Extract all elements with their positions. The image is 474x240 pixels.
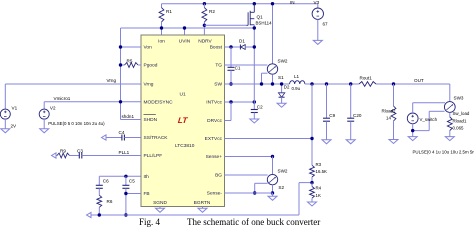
- svg-text:R3: R3: [316, 162, 322, 167]
- U1 top pin labels Ion UVIN NDRV: [158, 39, 212, 45]
- svg-text:16.5K: 16.5K: [316, 169, 328, 174]
- wire Sense+ pin: [225, 156, 273, 158]
- wire input top rail IN: [162, 3, 318, 5]
- capacitor C4 (series): [121, 135, 123, 141]
- svg-text:Vrng: Vrng: [107, 78, 117, 83]
- svg-text:C5: C5: [129, 178, 135, 183]
- svg-text:INTVcc: INTVcc: [206, 100, 222, 106]
- svg-text:shdn1: shdn1: [122, 114, 135, 119]
- wire bottom feedback rail: [91, 214, 299, 216]
- U1 bottom pin labels SGND BGRTN: [153, 200, 211, 206]
- switch SW3 Sw_load: [449, 84, 451, 101]
- svg-text:V1: V1: [12, 105, 18, 110]
- svg-text:1K: 1K: [316, 193, 321, 198]
- ground under V1: [1, 129, 10, 133]
- svg-text:R9: R9: [60, 148, 66, 153]
- svg-text:NDRV: NDRV: [198, 39, 212, 45]
- svg-text:C6: C6: [103, 178, 109, 183]
- svg-text:OUT: OUT: [414, 78, 424, 83]
- op-amp U1 LTC3810 controller IC body: [141, 35, 225, 207]
- svg-text:The schematic of one buck conv: The schematic of one buck converter: [187, 217, 320, 227]
- resistor R3 16.5K: [311, 164, 313, 166]
- wire Boost pin: [225, 46, 241, 48]
- wire Ith: [99, 175, 141, 177]
- ground under C2: [250, 119, 259, 123]
- wire UVIN stub: [184, 28, 186, 35]
- svg-text:Pgood: Pgood: [144, 63, 158, 69]
- svg-text:SW2: SW2: [278, 58, 288, 63]
- wire BG pin to S2 control: [225, 174, 268, 176]
- switch S1 model SW2 (top switch): [272, 4, 274, 64]
- svg-text:Q1: Q1: [257, 14, 264, 19]
- svg-text:S2: S2: [278, 185, 284, 190]
- svg-text:FB: FB: [144, 191, 150, 197]
- wire INTVcc: [225, 101, 255, 103]
- port flag on SS/TRACK wire: [102, 135, 107, 140]
- voltage source V2: [43, 102, 45, 110]
- ground under V_switch: [408, 137, 417, 141]
- port flag on bottom feedback wire: [87, 212, 92, 217]
- resistor R5: [121, 64, 125, 66]
- wire FB: [126, 193, 141, 195]
- svg-text:BSH114: BSH114: [256, 20, 273, 25]
- svg-text:14: 14: [386, 116, 391, 121]
- svg-text:PULSE(0 4 1u 10u 10u 2.5m 5m: PULSE(0 4 1u 10u 10u 2.5m 5m: [413, 149, 474, 154]
- svg-text:BGRTN: BGRTN: [194, 200, 211, 206]
- svg-text:2V: 2V: [11, 124, 18, 129]
- svg-text:S1: S1: [278, 75, 284, 80]
- wire SW pin to L1: [225, 83, 290, 85]
- svg-text:C1: C1: [235, 65, 241, 70]
- svg-text:D1: D1: [239, 39, 245, 44]
- wire gate drive to Q1: [204, 24, 246, 26]
- svg-text:PULSE(0 5 0 10n 10n 2u 4u): PULSE(0 5 0 10n 10n 2u 4u): [48, 121, 105, 126]
- voltage source V1: [4, 84, 6, 109]
- svg-text:Sense+: Sense+: [206, 154, 223, 160]
- svg-text:C20: C20: [353, 113, 362, 118]
- resistor Rload1 0.065: [447, 117, 452, 131]
- diode D2 catch diode at SW: [281, 84, 283, 92]
- wire left vertical bus x=120.5: [120, 28, 122, 120]
- svg-text:Rload2: Rload2: [382, 108, 396, 113]
- svg-text:Vrng: Vrng: [144, 82, 154, 88]
- transistor Q1 BSH114: [253, 2, 256, 5]
- resistor R6: [98, 188, 100, 195]
- svg-text:R2: R2: [209, 9, 215, 14]
- svg-text:D2: D2: [284, 85, 290, 90]
- wire shdn1 branch to SHDN pin: [121, 119, 142, 121]
- svg-text:0.065: 0.065: [453, 126, 465, 131]
- capacitor C20: [349, 82, 352, 85]
- svg-text:R1: R1: [166, 9, 172, 14]
- capacitor C5: [125, 176, 127, 185]
- svg-text:Ion: Ion: [158, 39, 165, 45]
- svg-text:SHDN: SHDN: [144, 117, 158, 123]
- svg-text:BG: BG: [215, 173, 222, 179]
- capacitor C1 bootstrap: [230, 47, 232, 67]
- svg-text:SW2: SW2: [278, 169, 288, 174]
- capacitor C2: [253, 102, 255, 110]
- svg-text:IN: IN: [290, 0, 295, 5]
- wire S2 control- to Sense- node: [255, 182, 268, 184]
- wire V_switch control to SW3: [413, 102, 445, 104]
- resistor R2: [203, 2, 206, 5]
- wire Q1 source column down to INTVcc: [253, 47, 255, 102]
- U1 left pin labels: [144, 45, 174, 198]
- node Vmicro1 wire MODE/SYNC from V2: [44, 101, 141, 103]
- node PLL1 wire to pin: [82, 155, 141, 157]
- svg-text:V_switch: V_switch: [420, 117, 438, 122]
- wire feedback riser to divider tap: [298, 183, 300, 215]
- ground under V3: [313, 40, 322, 44]
- svg-text:C9: C9: [329, 113, 335, 118]
- ground under BGRTN pin: [202, 207, 204, 209]
- wire SW3 control- return: [429, 110, 444, 112]
- wire TG pin to S1 control: [225, 64, 268, 66]
- wire Sense- pin: [225, 192, 273, 194]
- wire EXTVcc column from OUT: [310, 82, 313, 85]
- svg-text:67: 67: [323, 22, 329, 27]
- ground under R4: [308, 202, 317, 206]
- svg-text:Rout1: Rout1: [360, 75, 373, 80]
- svg-text:Fig. 4: Fig. 4: [139, 217, 161, 227]
- svg-text:C2: C2: [257, 104, 263, 109]
- svg-text:TG: TG: [215, 63, 222, 69]
- switch S2 model SW2 (bottom switch): [272, 157, 274, 175]
- capacitor C9: [325, 82, 328, 85]
- resistor R1: [161, 4, 163, 8]
- svg-text:UVIN: UVIN: [179, 39, 191, 45]
- svg-text:R4: R4: [316, 186, 322, 191]
- svg-text:Vmicro1: Vmicro1: [54, 96, 71, 101]
- svg-text:SS/TRACK: SS/TRACK: [144, 135, 169, 141]
- port flag PLL1 wire: [52, 153, 57, 158]
- svg-text:L1: L1: [294, 74, 300, 79]
- svg-text:R5: R5: [127, 58, 133, 63]
- svg-text:SW: SW: [214, 82, 222, 88]
- svg-text:C3: C3: [77, 148, 83, 153]
- svg-text:R6: R6: [107, 199, 113, 204]
- svg-text:Boost: Boost: [210, 45, 223, 51]
- svg-text:MODE/SYNC: MODE/SYNC: [144, 100, 174, 106]
- wire DRVcc joins INTVcc: [225, 120, 232, 122]
- wire S1 control- to SW node: [262, 72, 268, 74]
- resistor R9: [56, 155, 57, 157]
- diode D1 bootstrap: [239, 45, 241, 50]
- svg-text:PLL/LPF: PLL/LPF: [144, 153, 163, 159]
- caption text: [139, 217, 320, 227]
- capacitor C3 (series): [78, 153, 80, 159]
- svg-text:Sw_load: Sw_load: [453, 111, 470, 116]
- ground at Sense-: [272, 193, 274, 196]
- ground under Rload1: [445, 137, 454, 141]
- svg-text:DRVcc: DRVcc: [207, 118, 222, 124]
- svg-text:0.9u: 0.9u: [292, 86, 301, 91]
- voltage source V_switch: [407, 113, 418, 124]
- svg-text:V3: V3: [314, 0, 320, 5]
- ground under V2: [40, 129, 49, 133]
- inductor L1: [290, 81, 305, 84]
- ground under C20: [346, 140, 355, 144]
- resistor R4 1K: [311, 183, 313, 187]
- svg-text:SW3: SW3: [454, 96, 464, 101]
- svg-text:C4: C4: [119, 130, 125, 135]
- svg-text:SGND: SGND: [153, 200, 167, 206]
- svg-text:Sense-: Sense-: [207, 191, 223, 197]
- resistor Rout1 (series): [359, 82, 376, 87]
- svg-text:LTC3810: LTC3810: [175, 143, 195, 149]
- svg-text:V2: V2: [50, 105, 56, 110]
- resistor Rload2 14: [392, 82, 395, 85]
- ground under C9: [322, 140, 331, 144]
- ground under Rload2: [389, 140, 398, 144]
- svg-text:PLL1: PLL1: [119, 150, 130, 155]
- wire top horizontal to UVIN net: [121, 27, 255, 29]
- ground under D2: [277, 103, 286, 107]
- U1 right pin labels: [205, 45, 223, 197]
- wire NDRV stub: [203, 25, 205, 35]
- svg-text:U1: U1: [180, 92, 186, 98]
- wire Vrng from V1: [5, 83, 141, 85]
- ground under SGND pin: [159, 207, 161, 209]
- wire EXTVcc pin: [225, 138, 313, 140]
- svg-text:EXTVcc: EXTVcc: [205, 136, 223, 142]
- wire: [70, 155, 80, 157]
- wire output rail OUT: [305, 83, 359, 85]
- capacitor C6: [98, 176, 100, 185]
- svg-text:Rload1: Rload1: [453, 119, 467, 124]
- wire SS/TRACK: [106, 137, 122, 139]
- wire Von pin: [121, 46, 142, 48]
- svg-text:Ith: Ith: [144, 174, 150, 180]
- svg-text:Von: Von: [144, 45, 153, 51]
